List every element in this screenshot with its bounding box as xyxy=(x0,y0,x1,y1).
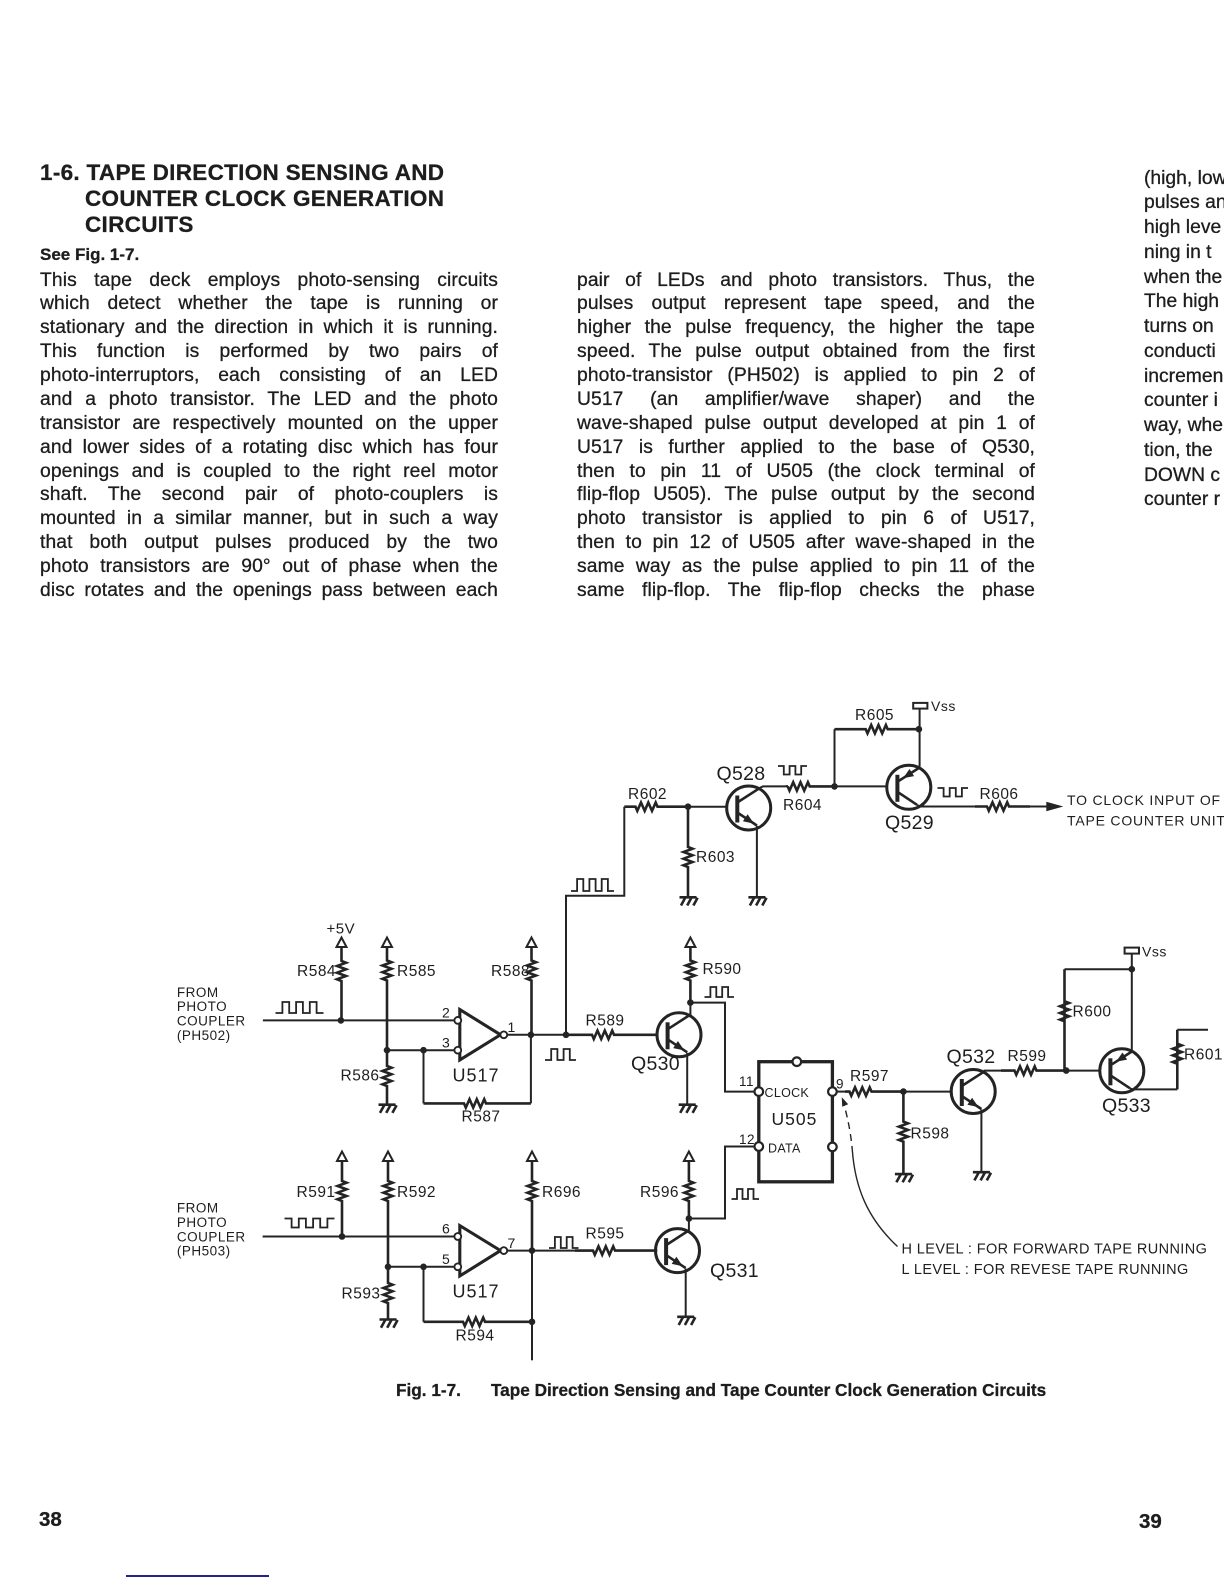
waveform symbol right of Q529 xyxy=(938,788,969,797)
waveform symbol on feedback wire xyxy=(571,879,614,891)
ground under R586 xyxy=(379,1103,396,1106)
ground under Q530 xyxy=(679,1103,696,1106)
node junction R585/pin3 wire xyxy=(384,1047,391,1054)
wire node to Q529 base xyxy=(835,785,887,787)
wire R592 node to U517 pin 5 xyxy=(388,1266,454,1268)
wire R585 node to U517 pin 3 xyxy=(387,1049,454,1051)
svg-text:R584: R584 xyxy=(297,963,336,980)
feedback wire up to output node xyxy=(530,1035,532,1104)
svg-text:COUPLER: COUPLER xyxy=(177,1014,246,1029)
figure caption xyxy=(396,1380,1046,1401)
Q532 emitter wire to ground xyxy=(980,1110,982,1173)
wire Vss node down to Q533 xyxy=(1131,969,1133,1052)
ground under Q532 xyxy=(973,1171,990,1174)
svg-text:R595: R595 xyxy=(586,1226,625,1243)
node junction R584/input wire xyxy=(338,1017,345,1024)
U505 DATA pin circle xyxy=(755,1142,764,1151)
resistor R603 xyxy=(684,807,693,898)
see fig note xyxy=(40,245,139,265)
svg-text:Q530: Q530 xyxy=(631,1053,680,1075)
pin 6 terminal circle xyxy=(454,1233,461,1240)
+5V supply arrow above R591 xyxy=(337,1152,347,1162)
node junction R592/pin5 wire xyxy=(385,1264,392,1271)
resistor R586 xyxy=(383,1050,392,1105)
transistor Q529 xyxy=(887,765,931,809)
svg-text:U517: U517 xyxy=(453,1066,500,1086)
resistor R592 xyxy=(384,1161,393,1267)
resistor R588 xyxy=(527,947,536,1035)
feedback wire down from pin3 node xyxy=(423,1050,425,1103)
svg-text:Q532: Q532 xyxy=(947,1046,996,1068)
node junction feedback tap xyxy=(420,1047,427,1054)
ground under R593 xyxy=(380,1318,397,1321)
pin 1 output circle xyxy=(500,1031,507,1038)
+5V supply arrow above R592 xyxy=(383,1152,393,1162)
power terminal Vss (top) xyxy=(919,709,921,730)
+5V supply arrow above R584 xyxy=(337,938,347,948)
svg-text:R586: R586 xyxy=(341,1068,380,1085)
resistor R589 xyxy=(566,1031,658,1039)
+5V supply arrow above R585 xyxy=(382,938,392,948)
op-amp U517 (second) xyxy=(460,1226,501,1276)
pin 7 output circle xyxy=(500,1247,507,1254)
waveform symbol under output wire xyxy=(545,1049,576,1060)
pin 5 terminal circle xyxy=(454,1263,461,1270)
svg-text:Q531: Q531 xyxy=(710,1260,759,1282)
+5V supply arrow above R588 xyxy=(527,938,537,948)
wire collector node to U505 CLOCK pin xyxy=(690,1003,754,1092)
wire node to Q533 base xyxy=(1066,1070,1100,1072)
Q530 collector wire to R590 node xyxy=(689,1003,691,1016)
svg-text:+5V: +5V xyxy=(327,921,356,938)
svg-text:PHOTO: PHOTO xyxy=(177,1215,227,1230)
svg-text:R696: R696 xyxy=(542,1184,581,1201)
wire R696 node down through R594 node xyxy=(531,1251,533,1361)
resistor R584 xyxy=(337,947,346,1020)
Q530 emitter wire to ground xyxy=(686,1053,688,1105)
U505 top pin circle xyxy=(793,1057,802,1066)
node junction R591/input wire xyxy=(339,1233,346,1240)
resistor R591 xyxy=(338,1161,347,1237)
pin 9 wire xyxy=(837,1091,845,1093)
+5V supply arrow above R596 xyxy=(684,1152,694,1162)
svg-text:R585: R585 xyxy=(397,963,436,980)
U517 pin1 output wire xyxy=(507,1034,566,1036)
resistor R604 xyxy=(788,782,835,790)
svg-text:PHOTO: PHOTO xyxy=(177,999,227,1014)
resistor R594 xyxy=(424,1318,533,1326)
transistor Q532 xyxy=(951,1070,995,1114)
waveform symbol above CLOCK wire xyxy=(705,987,735,997)
pin 3 terminal circle xyxy=(454,1047,461,1054)
wire node to Q532 base xyxy=(903,1091,951,1093)
U505 CLOCK pin circle xyxy=(755,1087,764,1096)
waveform symbol right of Q528 label xyxy=(778,766,807,775)
resistor R602 xyxy=(624,803,688,811)
node junction R594/R696 wire xyxy=(529,1319,536,1326)
resistor R696 xyxy=(528,1161,537,1251)
+5V supply arrow above R590 xyxy=(685,938,695,948)
svg-text:R594: R594 xyxy=(456,1328,495,1345)
svg-text:CLOCK: CLOCK xyxy=(765,1086,810,1100)
svg-text:DATA: DATA xyxy=(768,1142,801,1156)
ground under R603 xyxy=(680,896,697,899)
body text column 1 xyxy=(40,269,498,603)
wire junction to Q528 base xyxy=(688,806,726,808)
svg-text:(PH503): (PH503) xyxy=(177,1244,231,1259)
svg-text:12: 12 xyxy=(739,1132,755,1147)
svg-text:Vss: Vss xyxy=(931,698,956,714)
body text column 3 (clipped at right page edge) xyxy=(1144,167,1224,514)
U517 pin7 output wire xyxy=(507,1250,592,1252)
input waveform symbol (PH502) xyxy=(276,1002,324,1013)
transistor Q533 xyxy=(1100,1049,1144,1093)
output arrow to tape counter unit xyxy=(1030,806,1048,808)
resistor R599 xyxy=(1001,1066,1066,1074)
resistor R585 xyxy=(383,947,392,1050)
svg-text:7: 7 xyxy=(508,1235,516,1251)
svg-text:COUPLER: COUPLER xyxy=(177,1229,246,1244)
svg-text:9: 9 xyxy=(836,1077,844,1092)
resistor R601 with top wire xyxy=(1173,1030,1182,1090)
+5V supply arrow above R696 xyxy=(527,1152,537,1162)
Q528 emitter wire to ground xyxy=(756,826,758,898)
svg-text:R589: R589 xyxy=(586,1013,625,1030)
svg-text:R590: R590 xyxy=(703,961,742,978)
resistor R593 xyxy=(384,1267,393,1320)
op-amp U517 (first) xyxy=(460,1010,501,1061)
svg-text:FROM: FROM xyxy=(177,985,219,1000)
svg-text:R593: R593 xyxy=(342,1286,381,1303)
callout arrow to pin 9 (dashed) xyxy=(842,1097,848,1107)
node junction feedback tap (lower) xyxy=(420,1264,427,1271)
svg-text:TO CLOCK INPUT OF: TO CLOCK INPUT OF xyxy=(1067,792,1221,808)
Q529 collector wire to R606 xyxy=(917,805,975,807)
svg-text:R603: R603 xyxy=(696,849,735,866)
svg-text:Q533: Q533 xyxy=(1102,1095,1151,1117)
Q531 emitter wire to ground xyxy=(685,1269,687,1317)
Q533 collector wire to R601 xyxy=(1130,1088,1177,1091)
Q532 collector wire xyxy=(985,1071,1001,1072)
svg-text:R596: R596 xyxy=(640,1184,679,1201)
node junction pin7 wire/R696 xyxy=(529,1247,536,1254)
resistor R606 xyxy=(975,802,1030,810)
node junction R604/R605/Q529 base xyxy=(831,783,838,790)
resistor R598 xyxy=(899,1092,908,1175)
Q531 collector wire up to DATA node xyxy=(688,1219,690,1232)
resistor R595 xyxy=(575,1246,657,1254)
ground under Q528 emitter xyxy=(748,896,765,899)
svg-text:5: 5 xyxy=(442,1251,450,1267)
resistor R587 xyxy=(424,1099,531,1107)
ground under R598 xyxy=(895,1173,912,1176)
node junction R588/output wire xyxy=(528,1032,535,1039)
U505 bottom-right pin circle xyxy=(828,1143,837,1152)
svg-text:R605: R605 xyxy=(855,707,894,724)
svg-text:L LEVEL : FOR REVESE TAPE: L LEVEL : FOR REVESE TAPE RUNNING xyxy=(902,1262,1189,1278)
svg-text:R591: R591 xyxy=(297,1184,336,1201)
U505 pin 9 circle xyxy=(828,1087,837,1096)
input wire to U517 pin 2 xyxy=(263,1019,455,1021)
node junction output/top wire xyxy=(563,1032,570,1039)
DATA wire from Q531 collector node xyxy=(690,1147,755,1219)
waveform symbol above pin7 wire xyxy=(549,1237,579,1248)
svg-text:H LEVEL : FOR FORWARD TAP: H LEVEL : FOR FORWARD TAPE RUNNING xyxy=(902,1241,1208,1257)
node junction Vss/R600/Q533 emitter xyxy=(1129,966,1136,973)
flip-flop U505 box xyxy=(759,1062,833,1182)
wire Vss node down to Q529 emitter xyxy=(919,729,921,767)
blue underline mark bottom-left xyxy=(126,1575,269,1577)
page number 39 xyxy=(1139,1510,1162,1534)
ground under Q531 xyxy=(677,1316,694,1319)
input waveform symbol (PH503) xyxy=(285,1219,335,1228)
svg-text:Q529: Q529 xyxy=(885,812,934,834)
transistor Q530 xyxy=(657,1013,701,1057)
svg-text:1: 1 xyxy=(508,1019,516,1035)
power terminal Vss (right) xyxy=(1131,954,1133,970)
svg-text:TAPE COUNTER UNIT: TAPE COUNTER UNIT xyxy=(1067,813,1224,829)
page number 38 xyxy=(39,1508,62,1532)
svg-text:2: 2 xyxy=(442,1005,450,1021)
svg-text:U517: U517 xyxy=(453,1282,500,1302)
svg-text:R592: R592 xyxy=(397,1184,436,1201)
svg-text:R602: R602 xyxy=(628,786,667,803)
node junction Q530 collector/R590 xyxy=(687,999,694,1006)
node junction R602/R603/Q528 base xyxy=(685,803,692,810)
svg-text:Vss: Vss xyxy=(1142,944,1167,960)
svg-text:R597: R597 xyxy=(850,1068,889,1085)
svg-text:6: 6 xyxy=(442,1221,450,1237)
svg-text:R601: R601 xyxy=(1184,1047,1223,1064)
section heading 1-6 xyxy=(40,160,444,238)
svg-text:FROM: FROM xyxy=(177,1201,219,1216)
svg-text:R588: R588 xyxy=(491,963,530,980)
resistor R597 xyxy=(845,1087,903,1095)
body text column 2 xyxy=(577,269,1035,603)
waveform symbol under U505 xyxy=(732,1189,760,1199)
svg-text:U505: U505 xyxy=(772,1109,818,1129)
resistor R600 with wire up xyxy=(1060,969,1069,1070)
Q528 collector wire xyxy=(760,786,788,787)
resistor R596 xyxy=(684,1161,693,1219)
svg-text:(PH502): (PH502) xyxy=(177,1028,231,1043)
svg-text:R600: R600 xyxy=(1073,1004,1112,1021)
input wire to U517 pin 6 xyxy=(263,1236,455,1238)
svg-text:R599: R599 xyxy=(1008,1048,1047,1065)
svg-text:R606: R606 xyxy=(980,786,1019,803)
node junction R597/R598/Q532 base xyxy=(900,1088,907,1095)
svg-text:R598: R598 xyxy=(911,1126,950,1143)
svg-text:R587: R587 xyxy=(462,1109,501,1126)
feedback wire down from pin5 node xyxy=(423,1267,425,1322)
svg-text:3: 3 xyxy=(442,1035,450,1051)
pin 2 terminal circle xyxy=(454,1017,461,1024)
node junction R599/R600/Q533 base xyxy=(1063,1067,1070,1074)
resistor R590 xyxy=(686,947,695,1003)
transistor Q531 xyxy=(656,1229,700,1273)
svg-text:Q528: Q528 xyxy=(717,763,766,785)
svg-text:R604: R604 xyxy=(783,797,822,814)
wire from U517 pin1 node up to R602 xyxy=(566,807,624,1035)
svg-text:11: 11 xyxy=(739,1074,754,1089)
resistor R605 xyxy=(835,725,919,733)
transistor Q528 xyxy=(727,786,771,830)
node junction R605/Vss/Q529 collector xyxy=(916,726,923,733)
wire junction up to R605 xyxy=(834,729,836,786)
node junction Q531 collector/R596/DATA xyxy=(686,1215,693,1222)
